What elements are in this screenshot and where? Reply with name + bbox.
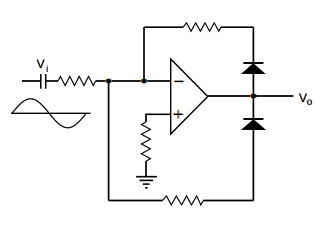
wire output node to Vo terminal <box>253 95 293 97</box>
wire capacitor to resistor <box>46 80 58 82</box>
wire input terminal to capacitor <box>22 80 40 82</box>
output node (junction dot) <box>250 94 257 99</box>
wire resistor to node A <box>96 80 171 82</box>
wire right rail down to diode D1 <box>252 27 254 63</box>
resistor R1 (input) <box>58 76 96 85</box>
label Vi <box>36 57 49 75</box>
wire top rail left segment <box>144 26 183 28</box>
wire diode D2 down to bottom rail <box>252 129 254 201</box>
op-amp inverting input symbol (minus) <box>174 80 184 82</box>
diode D1 (cathode bar) <box>243 62 263 64</box>
resistor R3 (bottom feedback) <box>163 196 204 205</box>
op-amp non-inverting input symbol (plus) <box>173 110 184 119</box>
node B (junction dot, feedback tap) <box>141 79 148 84</box>
sine wave source symbol <box>11 99 91 128</box>
wire top rail right segment <box>221 26 253 28</box>
svg-text:V: V <box>37 57 45 71</box>
wire non-inverting input <box>146 114 171 122</box>
capacitor C1 <box>41 74 46 89</box>
wire node A down to bottom rail <box>108 81 110 201</box>
wire op-amp output to node <box>208 95 254 97</box>
diode D1 (triangle) <box>242 64 265 74</box>
wire diode D1 to output node <box>252 73 254 119</box>
wire bottom rail right segment <box>203 200 253 202</box>
svg-text:o: o <box>307 97 313 108</box>
wire bottom rail left segment <box>109 200 163 202</box>
op-amp U1 (triangle body) <box>171 59 208 134</box>
diode D2 (triangle) <box>242 120 265 130</box>
node A (junction dot) <box>105 79 112 84</box>
label Vo <box>299 91 314 108</box>
wire resistor R4 to ground <box>145 161 147 177</box>
ground symbol <box>136 177 157 188</box>
resistor R2 (feedback, top) <box>183 23 221 31</box>
resistor R4 (to ground, vertical) <box>141 122 150 161</box>
svg-text:i: i <box>46 64 48 75</box>
wire node B up to top feedback rail <box>143 27 145 81</box>
diode D2 (cathode bar) <box>243 118 263 120</box>
